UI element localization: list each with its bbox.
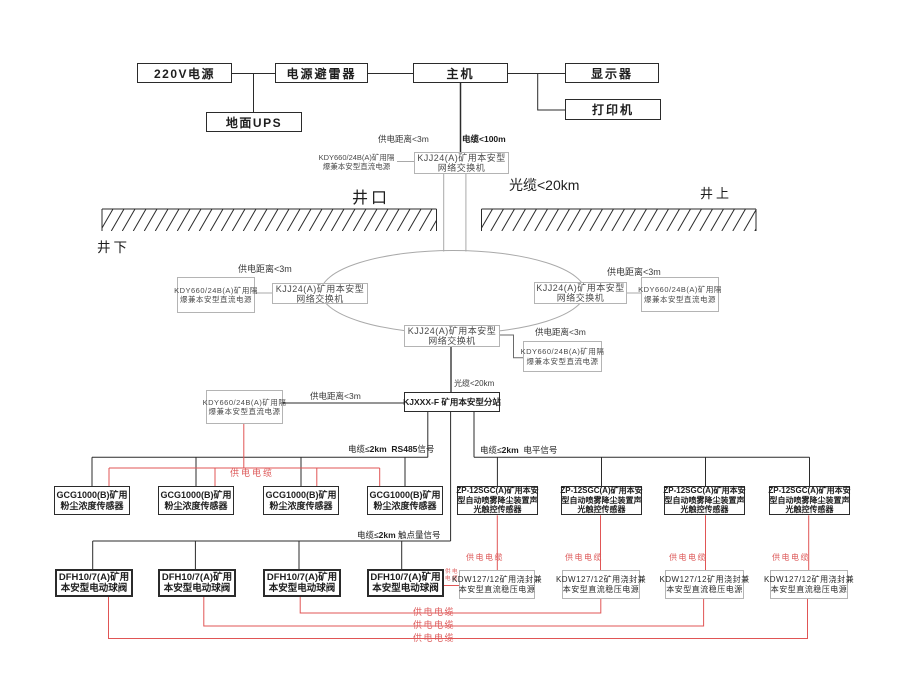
label fiber <20km — [509, 175, 579, 195]
wire substation contact-signal drop — [450, 412, 452, 541]
label wellhead 井口 — [352, 184, 390, 208]
box spray sensor ZP1 — [457, 486, 538, 515]
wire substation RS485 drop — [427, 412, 429, 457]
box 220V power source — [137, 63, 232, 83]
bus red power cable to dust sensors — [109, 467, 380, 469]
box left DC power supply KDY660 — [177, 277, 255, 313]
wire drop to ZP4 — [809, 457, 811, 486]
box dust sensor GCG1 — [54, 486, 130, 515]
box valve DFH4 — [367, 569, 444, 597]
label red power cable line C — [413, 631, 455, 644]
wire power supply down to red power bus — [243, 424, 245, 468]
label surface DC power supply KDY660 — [316, 153, 397, 171]
wire KDW4 to DFH1 power — [109, 597, 808, 639]
box spray sensor ZP2 — [561, 486, 642, 515]
box surface UPS — [206, 112, 302, 132]
box dust sensor GCG2 — [158, 486, 234, 515]
wire drop to ZP1 — [496, 457, 498, 486]
wire ZP2 to KDW2 power — [600, 515, 602, 570]
wire KDW1 to DFH4 power — [444, 585, 459, 587]
label red power cable line A — [413, 605, 455, 618]
box spray sensor ZP4 — [769, 486, 850, 515]
wire substation level-signal drop — [473, 412, 475, 457]
label cable <100m — [462, 133, 506, 145]
box valve DFH3 — [263, 569, 341, 597]
label underground 井下 — [97, 236, 130, 256]
box dust sensor GCG3 — [263, 486, 339, 515]
wire KDW3 to DFH2 power — [204, 597, 704, 626]
label cable 2km RS485 signal — [348, 443, 434, 455]
label supply distance <3m (substation) — [310, 390, 361, 402]
box host computer — [413, 63, 508, 83]
wire surface switch riser right — [465, 174, 467, 252]
label red power cable tiny (DFH4-KDW1) — [445, 569, 458, 582]
label red power cable ZP4 — [772, 552, 810, 563]
wire surface switch riser left — [443, 174, 445, 252]
box spray sensor ZP3 — [664, 486, 745, 515]
box power supply KDW2 — [562, 570, 640, 599]
label red power cable ZP1 — [466, 552, 504, 563]
box printer — [565, 99, 661, 120]
label red power cable ZP3 — [669, 552, 707, 563]
label surface 井上 — [700, 183, 732, 202]
box right ring switch KJJ24 — [534, 282, 627, 304]
label fiber <20km (small) — [454, 378, 494, 389]
ground hatch right (surface line) — [469, 209, 768, 231]
label supply distance <3m (bottom ring) — [535, 326, 586, 338]
ground hatch left (surface line) — [89, 209, 443, 231]
wire drop to ZP3 — [705, 457, 707, 486]
wire ZP1 to KDW1 power — [496, 515, 498, 570]
wire KDW2 to DFH3 power — [300, 597, 601, 613]
box bottom ring switch KJJ24 — [404, 325, 500, 347]
wire ZP3 to KDW3 power — [705, 515, 707, 570]
wire red drop to GCG1 — [108, 468, 110, 486]
label supply distance <3m (left ring) — [238, 262, 292, 275]
label red power cable ZP2 — [565, 552, 603, 563]
wire junction down to ground UPS — [253, 74, 255, 113]
wire drop to GCG3 — [300, 457, 302, 486]
label red power cable (sensor bus) — [230, 466, 274, 479]
wire right switch to right power supply — [627, 292, 641, 294]
wire red drop to GCG2 — [214, 468, 216, 486]
wire left power supply to left switch — [255, 292, 272, 294]
wire ZP4 to KDW4 power — [808, 515, 810, 570]
wire bottom ring switch down to substation — [450, 347, 452, 392]
wire drop to GCG1 — [91, 457, 93, 486]
wire host to display — [508, 73, 565, 75]
wire drop to DFH2 — [194, 541, 196, 569]
label red power cable line B — [413, 618, 455, 631]
box power supply KDW3 — [665, 570, 744, 599]
wire main power supply to substation — [283, 402, 404, 404]
wire red drop to GCG4 — [379, 468, 381, 486]
label supply distance <3m (top) — [378, 133, 429, 145]
wire drop to GCG4 — [404, 457, 406, 486]
bus level signal — [474, 456, 810, 458]
box valve DFH1 — [55, 569, 133, 597]
box valve DFH2 — [158, 569, 236, 597]
wire drop to GCG2 — [195, 457, 197, 486]
wire branch down to printer — [538, 74, 565, 111]
box display — [565, 63, 659, 83]
box substation KJXXX-F — [404, 392, 500, 412]
bus RS485 signal — [92, 456, 428, 458]
wire 220V power to lightning arrester — [232, 73, 275, 75]
wire host down to surface switch — [460, 83, 462, 152]
label supply distance <3m (right ring) — [607, 265, 661, 278]
bus contact signal — [93, 540, 451, 542]
ring network ellipse — [321, 251, 585, 334]
label cable 2km contact signal — [357, 529, 441, 541]
box dust sensor GCG4 — [367, 486, 443, 515]
box power supply KDW4 — [770, 570, 848, 599]
box surface network switch KJJ24 — [414, 152, 509, 174]
box bottom DC power supply KDY660 — [523, 341, 602, 372]
label cable 2km level signal — [480, 444, 557, 456]
wire drop to DFH1 — [92, 541, 94, 569]
box right DC power supply KDY660 — [641, 277, 719, 312]
wire drop to DFH3 — [298, 541, 300, 569]
wire drop to DFH4 — [401, 541, 403, 569]
wire bottom switch to its power supply — [500, 335, 523, 358]
box power supply KDW1 — [459, 570, 535, 599]
box left ring switch KJJ24 — [272, 283, 368, 304]
wire top power label to switch — [397, 161, 414, 163]
box main DC power supply KDY660 — [206, 390, 283, 424]
wire arrester to host — [368, 73, 413, 75]
box power lightning arrester — [275, 63, 368, 83]
wire drop to ZP2 — [601, 457, 603, 486]
wire red drop to GCG3 — [316, 468, 318, 486]
